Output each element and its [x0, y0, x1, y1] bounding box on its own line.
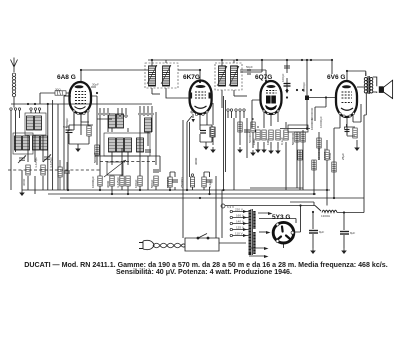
- svg-text:110 V: 110 V: [235, 232, 243, 236]
- svg-text:1300Ω: 1300Ω: [321, 214, 331, 218]
- svg-text:6A8 G: 6A8 G: [57, 74, 76, 81]
- svg-text:100000Ω: 100000Ω: [310, 117, 314, 130]
- svg-text:50000Ω: 50000Ω: [93, 152, 97, 163]
- svg-text:300Ω: 300Ω: [194, 157, 198, 165]
- svg-text:220 V: 220 V: [235, 208, 243, 212]
- svg-text:50000Ω: 50000Ω: [166, 177, 170, 188]
- svg-text:300Ω: 300Ω: [22, 178, 26, 186]
- svg-text:300Ω: 300Ω: [106, 180, 110, 188]
- svg-text:6K7G: 6K7G: [183, 74, 200, 81]
- svg-text:50pF: 50pF: [246, 65, 253, 69]
- svg-text:25000Ω: 25000Ω: [180, 177, 184, 188]
- svg-text:500000Ω: 500000Ω: [291, 132, 295, 145]
- svg-text:10000pF: 10000pF: [323, 148, 327, 160]
- svg-text:30pF: 30pF: [92, 83, 99, 87]
- svg-text:8000pF: 8000pF: [302, 82, 306, 92]
- svg-text:4-425pF: 4-425pF: [49, 157, 53, 168]
- svg-text:10000pF: 10000pF: [319, 116, 323, 128]
- svg-text:4-425pF: 4-425pF: [34, 157, 38, 168]
- svg-text:100pF: 100pF: [281, 73, 285, 82]
- svg-text:30Ω: 30Ω: [55, 88, 61, 92]
- svg-text:0,1μF: 0,1μF: [208, 180, 212, 188]
- svg-text:8μF: 8μF: [319, 230, 324, 234]
- svg-text:25μF: 25μF: [341, 153, 345, 160]
- svg-text:250Ω: 250Ω: [328, 152, 332, 160]
- svg-text:100pF: 100pF: [134, 179, 138, 188]
- svg-text:6V6 G: 6V6 G: [327, 74, 345, 81]
- svg-text:10000pF: 10000pF: [91, 176, 95, 188]
- svg-text:125 V: 125 V: [236, 226, 244, 230]
- svg-text:1MΩ: 1MΩ: [266, 138, 270, 145]
- svg-text:0,1μF: 0,1μF: [280, 137, 284, 145]
- svg-text:5000pF: 5000pF: [65, 118, 69, 128]
- svg-text:1MΩ: 1MΩ: [252, 138, 256, 145]
- svg-text:5Y3 G: 5Y3 G: [272, 214, 290, 221]
- svg-text:160 V: 160 V: [236, 214, 244, 218]
- svg-text:500000Ω: 500000Ω: [317, 147, 321, 160]
- svg-text:6Q7G: 6Q7G: [255, 74, 272, 81]
- svg-text:Sensibilità: 40 μV. Potenza: 4: Sensibilità: 40 μV. Potenza: 4 watt. Pro…: [116, 268, 292, 276]
- svg-text:6,3 V: 6,3 V: [227, 205, 234, 209]
- svg-text:500pF: 500pF: [150, 179, 154, 188]
- svg-text:8μF: 8μF: [350, 231, 355, 235]
- svg-text:140 V: 140 V: [236, 220, 244, 224]
- svg-text:4-425pF: 4-425pF: [116, 177, 120, 188]
